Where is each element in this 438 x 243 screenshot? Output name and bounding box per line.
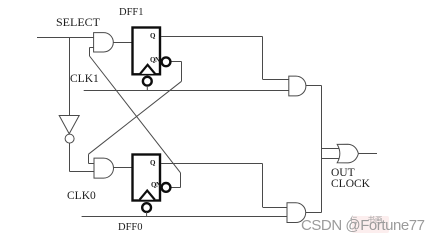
dff DFF0 box bbox=[133, 155, 161, 201]
wire SELECT input bbox=[37, 37, 94, 39]
label CLOCK bbox=[331, 179, 370, 191]
or-gate U6 bbox=[337, 144, 358, 163]
pin label Q of DFF0 bbox=[150, 160, 155, 167]
wire inverter output to AND2 lower input bbox=[70, 143, 95, 171]
watermark CSDN @Fortune77 bbox=[301, 218, 425, 233]
wire DFF1 clock stub bbox=[146, 86, 148, 91]
label DFF0 bbox=[118, 223, 143, 234]
and-gate U1 (top left) bbox=[94, 33, 114, 52]
dff DFF0 clock edge triangle bbox=[140, 191, 155, 200]
dff DFF1 QN bubble bbox=[162, 57, 171, 66]
dff DFF1 clock edge triangle bbox=[140, 65, 155, 74]
label DFF1 bbox=[119, 8, 144, 19]
wire DFF0 clock stub bbox=[146, 212, 148, 217]
wire AND3 output down to OR input bbox=[306, 86, 322, 213]
wire OR input stubs bbox=[322, 149, 342, 159]
wire AND2 output to DFF0 D bbox=[114, 167, 132, 169]
wire DFF1 QN to diagonal to AND2 top input bbox=[89, 62, 182, 164]
wire AND1 output to DFF1 D bbox=[113, 42, 131, 44]
and-gate U3 (top right) bbox=[289, 76, 306, 96]
inverter U5 bbox=[59, 116, 79, 144]
label CLK0 bbox=[67, 191, 96, 203]
wire OUT CLOCK output bbox=[358, 153, 377, 155]
wire AND4 output to vertical bbox=[306, 212, 322, 214]
wire CLK1 line bbox=[84, 90, 289, 92]
watermark avatar pink stamp bbox=[352, 216, 389, 233]
label SELECT bbox=[56, 16, 100, 28]
wire DFF0 Q output to right bbox=[161, 164, 287, 208]
dff DFF1 box bbox=[133, 28, 161, 75]
watermark avatar gray glyphs bbox=[350, 216, 383, 224]
wire AND1 lower input stub bbox=[90, 48, 95, 57]
label CLK1 bbox=[70, 74, 99, 86]
pin label Q of DFF1 bbox=[150, 33, 155, 40]
and-gate U2 (bottom left) bbox=[94, 158, 114, 178]
wire CLK0 line bbox=[82, 216, 287, 218]
dff DFF0 QN bubble bbox=[162, 183, 171, 192]
wire diagonal from AND1 stub to DFF0 QN bbox=[90, 56, 181, 188]
pin label QN of DFF1 bbox=[150, 57, 160, 64]
dff DFF0 inverted clock bubble bbox=[142, 203, 151, 212]
wire DFF1 Q output to right bbox=[161, 37, 289, 80]
label OUT bbox=[331, 168, 355, 180]
pin label QN of DFF0 bbox=[151, 182, 161, 189]
dff DFF1 inverted clock bubble bbox=[143, 77, 152, 86]
and-gate U4 (bottom right) bbox=[287, 203, 306, 223]
wire SELECT branch down to inverter bbox=[69, 38, 71, 117]
